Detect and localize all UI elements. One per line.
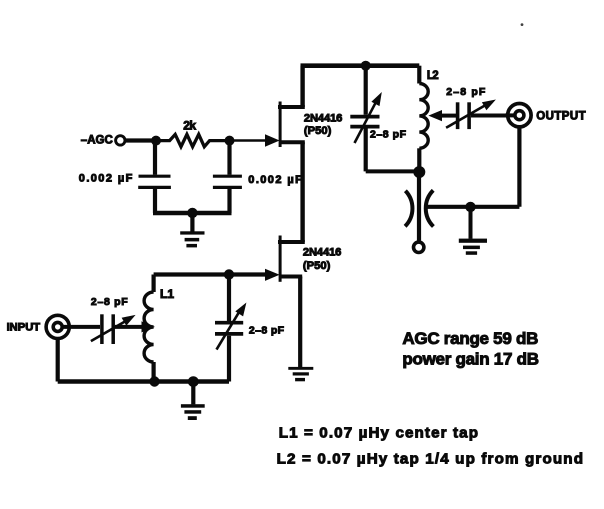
ground under AGC caps: [180, 213, 204, 247]
svg-text:power gain 17 dB: power gain 17 dB: [402, 349, 539, 368]
terminal AGC open circle: [116, 136, 125, 145]
node L2 bottom: [413, 166, 425, 178]
svg-text:2k: 2k: [183, 118, 196, 132]
capacitor C1 0.002uF left: [138, 141, 171, 213]
wire output shell down: [517, 127, 521, 207]
wire L1 top rail to Q2 gate: [154, 272, 266, 276]
wire bypass row: [426, 205, 520, 209]
svg-text:(P50): (P50): [304, 125, 332, 137]
node AGC right: [225, 136, 235, 146]
svg-text:(P50): (P50): [303, 260, 331, 272]
wire cap bottom rail: [153, 211, 232, 215]
svg-text:INPUT: INPUT: [7, 322, 41, 334]
svg-text:L2: L2: [427, 70, 439, 82]
svg-text:2–8 pF: 2–8 pF: [249, 325, 285, 337]
wire AGC to node: [125, 138, 157, 142]
svg-text:OUTPUT: OUTPUT: [536, 111, 586, 123]
ground near output: [459, 207, 487, 255]
svg-text:2–8 pF: 2–8 pF: [91, 296, 128, 308]
ground under Q2 source: [288, 367, 313, 381]
wire L2 tap arrow to output cap: [440, 114, 456, 118]
svg-text:L2 = 0.07 µHy tap 1/4 up from: L2 = 0.07 µHy tap 1/4 up from ground: [277, 450, 583, 467]
node drain rail junction: [361, 61, 371, 71]
svg-text:L1: L1: [160, 287, 174, 301]
speck artifact top right: [521, 23, 524, 26]
svg-text:2N4416: 2N4416: [303, 247, 342, 259]
capacitor CV3 2-8pF input series: [91, 314, 144, 344]
wire bottom rail input section: [58, 379, 229, 383]
svg-text:AGC range 59 dB: AGC range 59 dB: [402, 329, 538, 348]
svg-text:L1 = 0.07 µHy center tap: L1 = 0.07 µHy center tap: [279, 425, 478, 442]
capacitor CV2 2-8pF output coupling: [446, 100, 516, 130]
node top rail tank2: [224, 269, 234, 279]
terminal supply open circle: [414, 242, 424, 252]
wire input shell down: [56, 339, 60, 382]
node cap bottom: [187, 208, 197, 218]
capacitor C2 0.002uF right: [213, 141, 242, 213]
node AGC left: [151, 136, 161, 146]
svg-text:2N4416: 2N4416: [304, 113, 343, 125]
inductor L2: [419, 66, 428, 172]
connector OUTPUT: [505, 104, 531, 127]
transistor Q1 2N4416 upper: [231, 66, 305, 242]
resistor R 2k: [156, 134, 230, 146]
capacitor feedthrough: [405, 172, 433, 241]
svg-text:2–8 pF: 2–8 pF: [446, 86, 486, 98]
svg-text:0.002 µF: 0.002 µF: [79, 172, 133, 184]
ground under input tank: [181, 382, 205, 421]
wire tank bottom: [366, 169, 420, 173]
transistor Q2 2N4416 lower: [265, 236, 305, 368]
svg-text:0.002 µF: 0.002 µF: [248, 174, 302, 186]
connector INPUT: [46, 315, 100, 338]
inductor L1: [144, 275, 153, 382]
capacitor CV1 2-8pF tank upper: [350, 66, 382, 172]
wire top rail (drain of Q1 to top of L2): [301, 63, 420, 68]
node L1 bottom: [149, 376, 159, 386]
node bypass: [465, 202, 475, 212]
svg-text:–AGC: –AGC: [81, 134, 113, 146]
wire input tap arrow into L1: [142, 321, 155, 332]
node ground tap: [188, 376, 199, 387]
svg-text:2–8 pF: 2–8 pF: [370, 129, 407, 141]
capacitor CV4 2-8pF tank lower: [215, 275, 246, 382]
